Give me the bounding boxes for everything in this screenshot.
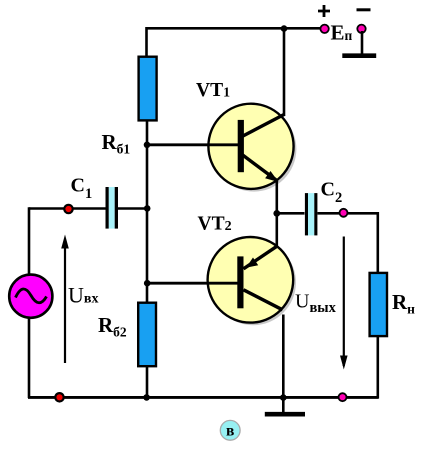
label Ep <box>331 20 353 44</box>
label Uvx <box>68 283 98 308</box>
wire -Ep to common bar <box>361 31 364 54</box>
wire VT1 base <box>147 143 239 146</box>
svg-text:Rб1: Rб1 <box>102 130 131 157</box>
resistor Rb1 <box>139 57 157 121</box>
wire left vertical input branch <box>28 207 31 275</box>
node red input terminal top <box>64 205 72 213</box>
label VT2 <box>198 213 232 234</box>
svg-text:в: в <box>226 423 234 440</box>
wire bottom ground rail <box>28 396 379 399</box>
arrow Uvx input voltage <box>61 235 69 364</box>
capacitor C1 <box>106 187 119 229</box>
node junction VT1 base <box>144 142 151 149</box>
node junction Rb2 ground <box>143 394 150 401</box>
node junction output <box>273 210 280 217</box>
node magenta -Ep terminal <box>357 25 365 33</box>
node junction collector ground rail <box>280 394 287 401</box>
svg-text:C2: C2 <box>321 178 343 206</box>
node junction top rail <box>281 25 288 32</box>
label minus sign <box>357 8 371 11</box>
label C2 <box>321 178 343 206</box>
label Rb1 <box>102 130 131 157</box>
svg-text:VT1: VT1 <box>196 80 230 101</box>
source G1 sine generator <box>9 275 52 318</box>
wire VT1 emitter to VT2 emitter <box>275 181 278 247</box>
label Rb2 <box>98 313 127 340</box>
wire middle vertical Rb1 bottom to Rb2 top <box>146 120 149 303</box>
ground bar Ep common <box>342 53 376 58</box>
wire VT1 collector to top rail <box>283 27 286 116</box>
wire C1 right lead <box>118 207 148 210</box>
resistor Rb2 <box>138 303 156 367</box>
node junction VT2 base <box>144 280 151 287</box>
svg-text:Uвых: Uвых <box>295 290 337 316</box>
label Rn <box>392 290 415 317</box>
wire output to C2 <box>277 212 305 215</box>
svg-text:C1: C1 <box>71 175 93 203</box>
svg-text:Uвх: Uвх <box>68 283 98 308</box>
transistor VT1 npn <box>208 104 296 192</box>
node magenta +Ep terminal <box>320 25 328 33</box>
wire source bottom to ground rail <box>28 318 31 399</box>
label VT1 <box>196 80 230 101</box>
wire Rb2 bottom to ground rail <box>146 366 149 398</box>
label Uvyx <box>295 290 337 316</box>
capacitor C2 <box>305 193 318 235</box>
ground symbol bottom <box>265 412 305 417</box>
arrow Uvyx output voltage <box>340 237 348 370</box>
svg-text:Rн: Rн <box>392 290 415 317</box>
wire VT2 base <box>147 282 239 285</box>
transistor VT2 pnp <box>208 237 296 325</box>
svg-text:VT2: VT2 <box>198 213 232 234</box>
wire C2 right lead to load branch <box>318 213 378 273</box>
node magenta terminal bottom <box>339 393 347 401</box>
resistor Rn load <box>370 273 387 336</box>
node magenta output terminal <box>340 209 348 217</box>
wire top rail from Rb1 branch to +Ep terminal <box>147 28 323 57</box>
node junction C1 to base divider <box>144 205 151 212</box>
node red input terminal bottom <box>55 393 63 401</box>
wire C1 left lead <box>29 207 106 210</box>
label C1 <box>71 175 93 203</box>
svg-text:Rб2: Rб2 <box>98 313 127 340</box>
svg-text:Eп: Eп <box>331 20 353 44</box>
label plus sign <box>318 5 330 17</box>
wire VT2 collector to ground <box>282 315 285 413</box>
wire Rn bottom to ground rail <box>376 336 379 399</box>
badge variant letter v <box>220 420 240 440</box>
